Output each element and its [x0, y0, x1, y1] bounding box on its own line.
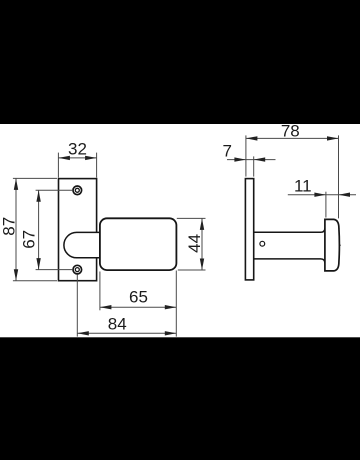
handrail saddle (rounded rect, front) — [100, 218, 176, 270]
dim 65 (saddle length) — [100, 271, 176, 337]
arm top edge with fillet — [254, 228, 325, 232]
svg-text:32: 32 — [68, 139, 87, 158]
knob mid nub — [339, 244, 341, 246]
knob cap (side) — [325, 219, 340, 271]
svg-text:84: 84 — [108, 315, 127, 334]
wall plate (side) — [245, 179, 253, 280]
dim 11 (knob width) — [288, 177, 356, 218]
svg-text:65: 65 — [129, 288, 148, 307]
top black band — [0, 0, 360, 124]
dim 32 (plate width) — [58, 139, 96, 177]
white drawing area — [0, 124, 360, 337]
neck boss (stadium) — [64, 232, 101, 257]
screw hole bottom — [73, 265, 82, 274]
svg-text:87: 87 — [0, 217, 19, 236]
dim 87 (plate height) — [0, 178, 57, 280]
dim 78 (total depth) — [246, 122, 339, 219]
screw hole top — [73, 186, 82, 195]
svg-text:78: 78 — [281, 122, 300, 141]
svg-text:7: 7 — [222, 141, 231, 160]
arm bottom edge with fillet — [254, 259, 325, 263]
svg-text:11: 11 — [294, 177, 312, 196]
wall plate (front) — [59, 179, 97, 281]
dim 44 (saddle height) — [177, 218, 206, 270]
dim 67 (hole spacing) — [20, 190, 73, 269]
bottom black band — [0, 338, 360, 460]
svg-text:44: 44 — [185, 234, 204, 253]
dim 84 (total length) — [77, 275, 176, 337]
dim 7 (plate thickness) — [222, 141, 275, 176]
svg-text:67: 67 — [20, 230, 39, 249]
pin hole on arm (side) — [260, 241, 265, 246]
